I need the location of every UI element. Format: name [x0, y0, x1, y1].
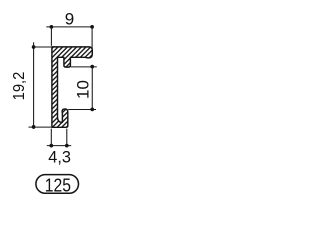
- dot right 9: [90, 25, 94, 29]
- dimension 9 (top): [46, 27, 92, 54]
- svg-text:9: 9: [65, 10, 74, 29]
- dimension 4,3 (bottom): [47, 129, 71, 146]
- svg-text:4,3: 4,3: [48, 147, 71, 166]
- dot top 19,2: [32, 45, 36, 49]
- part number bubble 125: [36, 175, 79, 194]
- profile cross-section body (hatched): [52, 47, 92, 127]
- dot left 4,3: [49, 144, 53, 148]
- dimension 19,2 (left): [29, 42, 52, 129]
- dim line 19,2: [33, 42, 35, 129]
- extension right (x=66.8): [66, 129, 68, 146]
- extension bottom (y=127.1): [29, 126, 52, 128]
- dot left 9: [50, 25, 54, 29]
- dim line 9: [46, 26, 92, 28]
- extension top (y=47): [34, 46, 52, 48]
- extension top (y=66.9): [71, 66, 97, 68]
- extension left (x=51.4): [50, 27, 52, 46]
- dot top 10: [90, 65, 94, 69]
- svg-text:10: 10: [73, 80, 92, 99]
- extension right (x=92.1): [91, 27, 93, 54]
- dot bottom 19,2: [32, 125, 36, 129]
- svg-text:125: 125: [45, 174, 71, 196]
- dim line 4,3: [47, 145, 71, 147]
- dot bottom 10: [90, 108, 94, 112]
- extension bottom (y=109.5): [68, 109, 96, 111]
- extension left (x=51.3): [50, 129, 52, 146]
- dimension 10 (right): [68, 67, 97, 110]
- svg-text:19,2: 19,2: [10, 72, 28, 101]
- dot right 4,3: [65, 144, 69, 148]
- dim line 10: [91, 67, 93, 110]
